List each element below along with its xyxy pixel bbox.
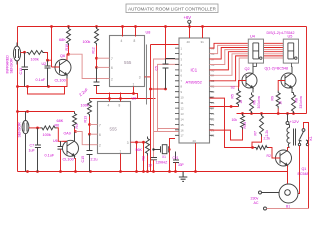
resistor R13 100k xyxy=(88,99,92,117)
svg-text:555: 555 xyxy=(124,60,132,65)
svg-text:100k: 100k xyxy=(81,104,89,108)
svg-text:C13: C13 xyxy=(19,68,23,75)
svg-text:16: 16 xyxy=(181,128,185,132)
relay K1 coil xyxy=(287,125,296,148)
wire 555#2 interrupt xyxy=(158,128,179,130)
U9 pin 7 xyxy=(90,124,98,126)
wire Q5 emitter down xyxy=(75,159,76,172)
capacitor C13 xyxy=(22,53,29,87)
svg-text:S2: S2 xyxy=(231,86,235,90)
resistor Q2 base 1k xyxy=(237,89,241,107)
svg-text:C7: C7 xyxy=(30,144,35,148)
svg-text:U2: U2 xyxy=(42,62,47,66)
svg-text:1uF: 1uF xyxy=(29,149,36,153)
svg-text:AC: AC xyxy=(254,201,259,205)
relay K1 switch xyxy=(298,129,308,146)
U9 pin 8 xyxy=(120,93,122,102)
title box xyxy=(126,4,218,13)
svg-text:20: 20 xyxy=(193,139,197,143)
wire gray link xyxy=(146,45,148,105)
svg-text:Q1: Q1 xyxy=(302,167,307,171)
node crystal left xyxy=(152,148,154,150)
wire R6 to Q5 base xyxy=(57,128,68,141)
svg-text:2.2uF: 2.2uF xyxy=(78,87,89,98)
svg-text:8: 8 xyxy=(119,104,121,108)
resistor R10 68K vertical xyxy=(67,27,71,46)
capacitor C9 2.2uF xyxy=(94,67,100,85)
MCU left pins xyxy=(175,48,179,135)
+6V power node xyxy=(188,20,191,26)
svg-text:4: 4 xyxy=(121,39,123,43)
wire Q5 collector to 555 trigger xyxy=(76,132,86,145)
resistor Q1 base 1k xyxy=(276,91,280,109)
wire sensor1 to junction xyxy=(20,52,24,54)
svg-text:12: 12 xyxy=(181,107,185,111)
svg-text:330ohm: 330ohm xyxy=(299,96,303,108)
svg-text:AUTOMATIC ROOM LIGHT CONTROLLE: AUTOMATIC ROOM LIGHT CONTROLLER xyxy=(128,6,217,11)
wire lamp bottom return xyxy=(267,208,309,210)
U8 pin 3 output xyxy=(145,76,151,78)
svg-text:56K: 56K xyxy=(136,148,143,152)
svg-text:29: 29 xyxy=(211,96,215,100)
wire reset horizontal xyxy=(151,88,166,90)
svg-text:28: 28 xyxy=(211,101,215,105)
svg-text:7: 7 xyxy=(111,57,113,61)
wire sensor1 emitter rail xyxy=(18,86,68,88)
svg-text:C21: C21 xyxy=(173,156,179,160)
U9 pin 1 xyxy=(120,154,122,172)
+12V power node xyxy=(286,114,289,125)
capacitor C14 0.1uF xyxy=(45,60,51,86)
U9 pin 2 xyxy=(86,144,98,146)
U8 pin 6 xyxy=(97,66,110,68)
svg-text:12MHZ: 12MHZ xyxy=(156,160,169,164)
U8 pin 1 xyxy=(133,87,135,94)
wire display2 to Q1 collector xyxy=(290,63,293,66)
wire MCU to R14 xyxy=(210,130,243,141)
resistor R4 68K vertical xyxy=(73,112,77,129)
resistor R14 10k xyxy=(241,114,245,130)
wire Q1 collector to relay coil xyxy=(288,148,290,151)
wire 555 rail A xyxy=(97,86,138,99)
U9 pin 3 output xyxy=(131,141,144,143)
U8 pin 2 xyxy=(97,78,110,80)
svg-text:555: 555 xyxy=(110,127,118,132)
transistor Q2 BC548 xyxy=(242,63,257,92)
svg-text:U8: U8 xyxy=(146,31,151,35)
svg-text:6: 6 xyxy=(111,66,113,70)
op-amp IC1 AT89S52 MCU xyxy=(179,38,210,143)
svg-text:24: 24 xyxy=(211,123,215,127)
capacitor C5 10uF reset xyxy=(163,59,176,90)
svg-text:B1: B1 xyxy=(286,205,290,209)
svg-text:C5: C5 xyxy=(155,66,159,70)
svg-text:2: 2 xyxy=(99,144,101,148)
svg-text:2.2k: 2.2k xyxy=(264,137,271,141)
svg-text:U6: U6 xyxy=(53,139,58,143)
svg-text:Q2: Q2 xyxy=(245,67,250,71)
capacitor C20 33p xyxy=(151,158,157,160)
wire Q6 emitter down xyxy=(66,79,68,87)
svg-text:22: 22 xyxy=(211,134,215,138)
wire R12 to pins 7,6 xyxy=(96,46,98,68)
svg-text:0.1uF: 0.1uF xyxy=(45,154,55,158)
svg-text:R9: R9 xyxy=(271,96,275,100)
MCU pin 20 GND xyxy=(195,143,197,172)
resistor R3 56K xyxy=(146,137,150,156)
node crystal right xyxy=(168,148,170,150)
bus wires P0 to displays xyxy=(210,43,284,86)
svg-text:1k: 1k xyxy=(279,101,283,105)
svg-text:R13: R13 xyxy=(84,116,88,123)
transistor Q6 CL100 xyxy=(55,59,71,78)
resistor R6 100k horizontal xyxy=(41,126,57,130)
resistor R11 100k horizontal xyxy=(27,51,45,55)
wire relay NC contact to lamp xyxy=(298,146,300,194)
wire MCU to relay driver xyxy=(210,98,255,147)
svg-text:2: 2 xyxy=(111,77,113,81)
wire Q6 collector to 555 trigger xyxy=(69,54,97,78)
svg-text:2.2u: 2.2u xyxy=(91,158,98,162)
wire sensor2 top rail xyxy=(18,111,75,113)
svg-text:100k: 100k xyxy=(43,133,51,137)
svg-text:+6V: +6V xyxy=(184,15,192,20)
U9 pin 6 xyxy=(90,133,98,135)
wire U9 pin3 to rail xyxy=(137,142,144,171)
U9 pin 4 xyxy=(109,93,111,102)
resistor R7 2.2k xyxy=(260,114,264,137)
svg-text:1: 1 xyxy=(133,83,135,87)
lamp B1 xyxy=(279,184,298,203)
MCU pin 40 VCC xyxy=(189,27,191,39)
svg-text:X1: X1 xyxy=(162,155,166,159)
wire 555 rail B xyxy=(90,98,156,100)
sensor 2 xyxy=(22,112,29,172)
svg-text:13: 13 xyxy=(181,112,185,116)
svg-text:68K: 68K xyxy=(59,38,66,42)
display U4 LTS542 xyxy=(248,39,263,63)
wire Q6 collector up xyxy=(67,46,69,61)
wire MCU to Q2 base resistor xyxy=(210,106,239,108)
U8 pin 7 xyxy=(97,57,110,59)
svg-text:8: 8 xyxy=(134,39,136,43)
svg-text:33P: 33P xyxy=(178,163,184,167)
capacitor C8 0.1uF xyxy=(58,141,64,149)
svg-text:1k: 1k xyxy=(239,100,243,104)
svg-text:CL100: CL100 xyxy=(55,79,66,83)
capacitor C15 2.2u xyxy=(87,134,93,171)
svg-text:U9: U9 xyxy=(132,97,137,101)
wire base lead overlays xyxy=(55,67,285,158)
wire left edge rail xyxy=(17,27,19,172)
wire display1 to Q2 collector xyxy=(253,63,256,66)
svg-text:15: 15 xyxy=(181,123,185,127)
wire sensor2 to junction xyxy=(29,127,41,129)
svg-text:100k: 100k xyxy=(83,40,91,44)
resistor Q1 emitter 330ohm xyxy=(292,93,296,114)
svg-text:K1: K1 xyxy=(309,136,313,140)
capacitor C7 1uF xyxy=(35,128,41,172)
svg-text:230v: 230v xyxy=(251,197,259,201)
transistor Q5 CL100 xyxy=(63,132,79,159)
svg-text:68K: 68K xyxy=(57,119,64,123)
wire R4 to Q5 collector xyxy=(74,129,76,133)
U8 pin 8 xyxy=(135,27,137,37)
resistor R2 xyxy=(255,146,269,150)
wire ground staple xyxy=(28,87,65,95)
terminal 230v AC xyxy=(259,191,280,210)
svg-text:25: 25 xyxy=(211,117,215,121)
svg-text:2.2k: 2.2k xyxy=(265,130,269,137)
svg-text:100k: 100k xyxy=(31,58,39,62)
svg-text:40: 40 xyxy=(187,40,191,44)
svg-text:300ohm: 300ohm xyxy=(257,96,261,108)
wire 555#2 interrupt b xyxy=(154,131,179,133)
svg-text:4: 4 xyxy=(108,104,110,108)
svg-text:3: 3 xyxy=(127,141,129,145)
svg-text:14: 14 xyxy=(181,117,185,121)
transistor Q1 BC548 display xyxy=(281,67,296,93)
display U5 LTS542 xyxy=(283,39,298,63)
wire to MCU pin1 xyxy=(151,44,179,46)
svg-text:R3: R3 xyxy=(142,156,146,160)
svg-text:3: 3 xyxy=(139,76,141,80)
resistor R12 100k xyxy=(95,27,99,46)
svg-text:+12V: +12V xyxy=(290,119,300,124)
U8 pin 4 xyxy=(122,27,124,37)
svg-text:OA9: OA9 xyxy=(64,132,71,136)
wire Q1 emitter to lamp xyxy=(287,166,289,184)
svg-text:30: 30 xyxy=(211,90,215,94)
svg-text:Q(1-2)=BC548: Q(1-2)=BC548 xyxy=(265,67,288,71)
svg-text:R5: R5 xyxy=(231,94,235,98)
svg-text:IC1: IC1 xyxy=(191,68,198,73)
svg-text:R6: R6 xyxy=(55,124,60,128)
svg-text:U4: U4 xyxy=(250,35,255,39)
svg-text:17: 17 xyxy=(181,134,185,138)
svg-text:R14: R14 xyxy=(243,122,247,128)
wire right edge of display section xyxy=(306,27,308,114)
svg-text:R12: R12 xyxy=(91,47,95,53)
svg-text:R4: R4 xyxy=(75,124,79,129)
svg-text:R8: R8 xyxy=(295,98,299,102)
svg-text:6: 6 xyxy=(99,133,101,137)
svg-text:AT89S52: AT89S52 xyxy=(186,80,203,85)
wire R11 tail xyxy=(45,53,52,61)
svg-text:1: 1 xyxy=(120,150,122,154)
wire relay common xyxy=(304,123,309,209)
wire pink vertical a xyxy=(154,59,180,158)
svg-text:7: 7 xyxy=(99,123,101,127)
wire right lower rail xyxy=(237,113,307,115)
wire crystal to MCU pin xyxy=(170,139,176,172)
capacitor C21 33p xyxy=(173,152,179,163)
MCU pin 31 EA xyxy=(202,27,204,39)
wire R7 to relay line xyxy=(252,137,262,148)
svg-text:R7: R7 xyxy=(254,131,258,135)
wire bias from rail xyxy=(52,27,60,68)
op-amp timer U9 555 #2 xyxy=(98,102,131,154)
infrared sensor 1 xyxy=(13,43,20,65)
svg-text:27: 27 xyxy=(211,107,215,111)
wire top +6V rail xyxy=(18,26,307,28)
svg-text:31: 31 xyxy=(201,40,205,44)
svg-text:10k: 10k xyxy=(232,118,238,122)
ground xyxy=(179,172,187,182)
svg-text:0.1uF: 0.1uF xyxy=(36,78,46,82)
svg-text:R6: R6 xyxy=(253,100,257,104)
svg-text:DIS(1-2)=LTS542: DIS(1-2)=LTS542 xyxy=(267,31,295,35)
svg-text:CL100: CL100 xyxy=(63,158,74,162)
wire bottom ground rail xyxy=(18,172,288,184)
svg-text:C15: C15 xyxy=(81,156,85,163)
resistor Q2 emitter 330ohm xyxy=(250,93,254,114)
wire pink vertical b xyxy=(158,64,180,131)
op-amp timer U8 555 #1 xyxy=(110,36,145,87)
svg-text:Q6: Q6 xyxy=(60,54,65,58)
MCU right pins xyxy=(210,48,214,135)
wire R13 to pins xyxy=(89,117,91,135)
crystal X1 12MHZ xyxy=(154,145,170,154)
svg-text:26: 26 xyxy=(211,112,215,116)
transistor Q1 BC548 relay driver xyxy=(276,150,292,166)
svg-text:10: 10 xyxy=(181,96,185,100)
wire 555#1 out vertical xyxy=(150,45,152,172)
svg-text:11: 11 xyxy=(181,101,184,105)
svg-text:SENSOR: SENSOR xyxy=(18,122,22,138)
svg-text:R2: R2 xyxy=(267,154,271,158)
svg-text:3?: 3? xyxy=(149,164,153,168)
svg-text:SENSOR: SENSOR xyxy=(10,58,14,74)
